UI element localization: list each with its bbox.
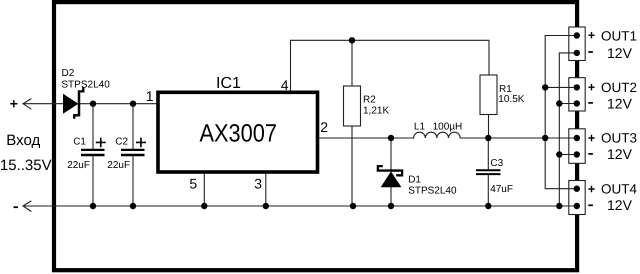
svg-text:STPS2L40: STPS2L40 (61, 79, 110, 90)
svg-text:Вход: Вход (6, 132, 40, 149)
svg-text:D2: D2 (62, 68, 75, 79)
svg-text:R2: R2 (363, 95, 376, 106)
svg-text:4: 4 (281, 77, 289, 93)
svg-text:100µH: 100µH (433, 121, 463, 132)
svg-text:12V: 12V (607, 197, 633, 213)
svg-text:22uF: 22uF (67, 160, 90, 171)
svg-text:L1: L1 (414, 121, 426, 132)
svg-text:10.5K: 10.5K (498, 94, 524, 105)
svg-text:IC1: IC1 (216, 75, 241, 92)
svg-text:2: 2 (320, 119, 328, 135)
svg-text:OUT4: OUT4 (601, 182, 637, 197)
svg-text:1: 1 (146, 88, 154, 104)
svg-text:12V: 12V (607, 45, 633, 61)
svg-text:C1: C1 (73, 137, 86, 148)
svg-text:5: 5 (189, 175, 197, 191)
svg-text:47uF: 47uF (490, 184, 513, 195)
svg-text:R1: R1 (499, 84, 512, 95)
svg-text:C2: C2 (115, 137, 128, 148)
svg-text:12V: 12V (607, 146, 633, 162)
svg-text:D1: D1 (408, 174, 421, 185)
svg-text:OUT2: OUT2 (601, 80, 637, 95)
svg-text:AX3007: AX3007 (200, 119, 278, 147)
svg-text:C3: C3 (490, 158, 503, 169)
svg-text:STPS2L40: STPS2L40 (408, 185, 457, 196)
svg-text:15..35V: 15..35V (0, 157, 52, 174)
svg-text:3: 3 (254, 175, 262, 191)
svg-text:12V: 12V (607, 96, 633, 112)
svg-text:1,21K: 1,21K (363, 106, 389, 117)
svg-text:OUT3: OUT3 (601, 131, 637, 146)
svg-text:OUT1: OUT1 (601, 29, 637, 44)
svg-text:22uF: 22uF (107, 160, 130, 171)
